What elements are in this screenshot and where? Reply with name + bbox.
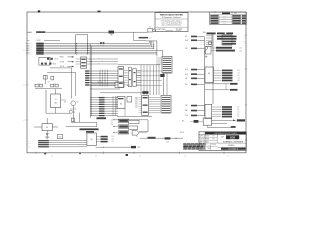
svg-text:REV: REV: [234, 13, 237, 15]
svg-text:2-3: 2-3: [244, 36, 246, 38]
svg-text:2-3: 2-3: [201, 35, 203, 37]
svg-text:2-5: 2-5: [30, 52, 32, 54]
svg-text:7-70: 7-70: [212, 136, 215, 138]
svg-text:SIZE: SIZE: [221, 137, 224, 139]
svg-text:STB: STB: [185, 115, 188, 117]
svg-text:2-4: 2-4: [111, 139, 113, 141]
svg-text:SD 149462 D: SD 149462 D: [228, 148, 238, 150]
svg-text:SEL: SEL: [185, 78, 188, 80]
svg-text:ECO: ECO: [223, 15, 226, 17]
svg-text:2-3: 2-3: [28, 32, 30, 34]
svg-text:2-4: 2-4: [111, 120, 113, 122]
svg-text:SHT 2: SHT 2: [208, 148, 212, 150]
svg-text:ECO: ECO: [223, 18, 226, 20]
svg-text:2-6: 2-6: [111, 124, 113, 126]
svg-text:4F: 4F: [64, 102, 66, 104]
svg-text:2-3: 2-3: [111, 136, 113, 138]
svg-text:2-5: 2-5: [238, 75, 240, 77]
svg-text:BSY: BSY: [185, 84, 188, 86]
svg-text:C2 R3: C2 R3: [53, 83, 57, 85]
svg-text:2-5: 2-5: [29, 146, 31, 148]
svg-text:2-4: 2-4: [201, 38, 203, 40]
svg-text:117095: 117095: [212, 144, 217, 146]
svg-text:2-3: 2-3: [238, 78, 240, 80]
svg-text:2-4: 2-4: [238, 80, 240, 82]
svg-text:2-5: 2-5: [237, 114, 239, 116]
svg-text:CHK R. PRICE: CHK R. PRICE: [200, 139, 209, 141]
svg-text:2-6: 2-6: [201, 42, 203, 44]
svg-text:P01: P01: [135, 97, 138, 99]
svg-text:INT: INT: [185, 36, 187, 38]
svg-text:XDS: XDS: [230, 135, 236, 139]
svg-text:7-70: 7-70: [212, 139, 215, 141]
svg-text:P11: P11: [135, 99, 137, 101]
svg-text:Q1: Q1: [77, 102, 79, 104]
svg-text:R7: R7: [74, 112, 76, 114]
svg-text:2-6: 2-6: [240, 50, 242, 52]
svg-text:CR1: CR1: [110, 35, 113, 37]
svg-text:NOTE:: NOTE:: [180, 132, 185, 134]
svg-text:P21: P21: [135, 101, 138, 103]
svg-text:2-5: 2-5: [30, 47, 32, 49]
svg-text:T3: T3: [136, 136, 138, 138]
svg-text:ECO: ECO: [223, 20, 226, 22]
svg-text:P41: P41: [135, 105, 138, 107]
svg-text:2 RST: 2 RST: [36, 40, 40, 42]
svg-text:C9: C9: [48, 81, 50, 83]
svg-text:2-4: 2-4: [238, 73, 240, 75]
svg-text:31257: 31257: [176, 28, 183, 31]
svg-text:CLK 2F: CLK 2F: [97, 82, 102, 84]
svg-text:2-2: 2-2: [29, 140, 31, 142]
svg-text:R4 1K: R4 1K: [53, 64, 57, 66]
svg-text:El Segundo, California: El Segundo, California: [162, 16, 182, 19]
svg-text:2-6: 2-6: [240, 48, 242, 50]
svg-text:2-3: 2-3: [238, 70, 240, 72]
svg-text:2-4: 2-4: [201, 46, 203, 48]
svg-text:2-3: 2-3: [30, 48, 32, 50]
svg-text:2-4: 2-4: [237, 107, 239, 109]
svg-text:K1: K1: [59, 137, 61, 139]
svg-text:P51: P51: [135, 107, 138, 109]
svg-text:ECO: ECO: [223, 23, 226, 25]
svg-text:2-5: 2-5: [111, 122, 113, 124]
svg-text:REQ: REQ: [185, 74, 188, 76]
svg-text:OSC: OSC: [54, 103, 57, 105]
svg-text:2-4: 2-4: [237, 116, 239, 118]
svg-text:RDY: RDY: [185, 48, 188, 50]
svg-text:XEROX DATA SYSTEMS: XEROX DATA SYSTEMS: [160, 14, 184, 17]
svg-text:2-4: 2-4: [30, 45, 32, 47]
svg-text:2-5: 2-5: [111, 141, 113, 143]
svg-text:K2: K2: [149, 27, 151, 29]
svg-text:ENB: ENB: [185, 40, 188, 42]
svg-text:149462: 149462: [228, 145, 236, 147]
svg-text:2-3: 2-3: [30, 43, 32, 45]
svg-text:RET: RET: [138, 147, 141, 149]
svg-text:C12: C12: [166, 141, 169, 143]
svg-text:Y1: Y1: [55, 99, 57, 101]
svg-text:2-3: 2-3: [30, 54, 32, 56]
svg-text:2-5: 2-5: [244, 41, 246, 43]
svg-text:2-4: 2-4: [30, 50, 32, 52]
svg-text:2-4: 2-4: [29, 144, 31, 146]
svg-text:ENB 2: ENB 2: [60, 57, 64, 59]
svg-text:P31: P31: [135, 103, 138, 105]
svg-text:COPY NO.: COPY NO.: [157, 29, 167, 31]
svg-text:DWG: DWG: [208, 144, 211, 146]
svg-text:C8 .01: C8 .01: [54, 59, 58, 61]
svg-text:R9: R9: [182, 121, 184, 123]
svg-text:2-3: 2-3: [201, 44, 203, 46]
svg-text:C2 R3: C2 R3: [37, 83, 41, 85]
svg-text:2-3: 2-3: [244, 43, 246, 45]
svg-text:SET B: SET B: [60, 66, 64, 68]
svg-text:2-3: 2-3: [29, 142, 31, 144]
svg-text:2-4: 2-4: [237, 111, 239, 113]
svg-text:2-5: 2-5: [237, 109, 239, 111]
svg-text:DRN J. MOSS: DRN J. MOSS: [200, 136, 209, 138]
svg-text:2-5: 2-5: [201, 40, 203, 42]
svg-text:2-4: 2-4: [244, 38, 246, 40]
svg-text:2-4: 2-4: [150, 37, 152, 39]
